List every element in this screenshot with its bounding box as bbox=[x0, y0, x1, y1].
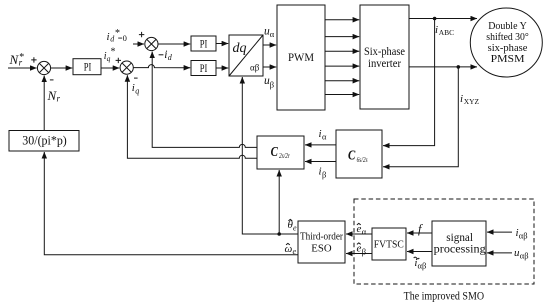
svg-text:PI: PI bbox=[200, 38, 208, 50]
svg-text:inverter: inverter bbox=[368, 58, 401, 70]
svg-text:*: * bbox=[19, 52, 24, 63]
svg-text:PI: PI bbox=[84, 61, 92, 73]
svg-text:αβ: αβ bbox=[520, 251, 529, 261]
svg-text:C: C bbox=[348, 148, 356, 163]
svg-text:XYZ: XYZ bbox=[464, 97, 480, 106]
svg-text:ESO: ESO bbox=[311, 242, 331, 254]
svg-text:α: α bbox=[362, 227, 367, 237]
svg-text:2s/2r: 2s/2r bbox=[279, 151, 290, 160]
svg-text:e: e bbox=[293, 224, 297, 233]
svg-text:FVTSC: FVTSC bbox=[374, 239, 404, 251]
svg-text:PI: PI bbox=[200, 63, 208, 75]
svg-text:PWM: PWM bbox=[288, 50, 314, 64]
svg-text:=0: =0 bbox=[118, 33, 127, 43]
svg-text:Six-phase: Six-phase bbox=[364, 46, 405, 58]
svg-text:Third-order: Third-order bbox=[300, 231, 343, 243]
svg-text:αβ: αβ bbox=[418, 261, 427, 271]
svg-text:signal: signal bbox=[446, 232, 473, 244]
svg-text:ω: ω bbox=[285, 243, 293, 255]
svg-text:i: i bbox=[107, 31, 110, 43]
svg-text:β: β bbox=[362, 247, 366, 257]
svg-text:β: β bbox=[322, 170, 326, 180]
svg-text:processing: processing bbox=[434, 243, 486, 255]
svg-text:i: i bbox=[460, 93, 463, 105]
svg-text:f: f bbox=[418, 222, 423, 236]
svg-text:β: β bbox=[270, 80, 274, 90]
svg-text:αβ: αβ bbox=[519, 231, 528, 241]
svg-text:PMSM: PMSM bbox=[491, 53, 525, 65]
svg-text:e: e bbox=[293, 247, 297, 256]
svg-text:αβ: αβ bbox=[250, 63, 260, 73]
svg-text:The improved SMO: The improved SMO bbox=[404, 288, 485, 302]
svg-text:d: d bbox=[168, 53, 173, 62]
svg-text:dq: dq bbox=[233, 41, 247, 56]
svg-text:r: r bbox=[57, 94, 61, 104]
svg-text:C: C bbox=[271, 144, 279, 159]
svg-text:α: α bbox=[322, 132, 327, 142]
svg-text:6s/2s: 6s/2s bbox=[357, 155, 368, 164]
svg-text:30/(pi*p): 30/(pi*p) bbox=[22, 133, 67, 148]
svg-text:α: α bbox=[270, 29, 275, 39]
svg-text:q: q bbox=[135, 87, 139, 96]
svg-text:*: * bbox=[111, 47, 116, 58]
svg-text:ABC: ABC bbox=[439, 28, 454, 37]
svg-text:i: i bbox=[435, 24, 438, 36]
